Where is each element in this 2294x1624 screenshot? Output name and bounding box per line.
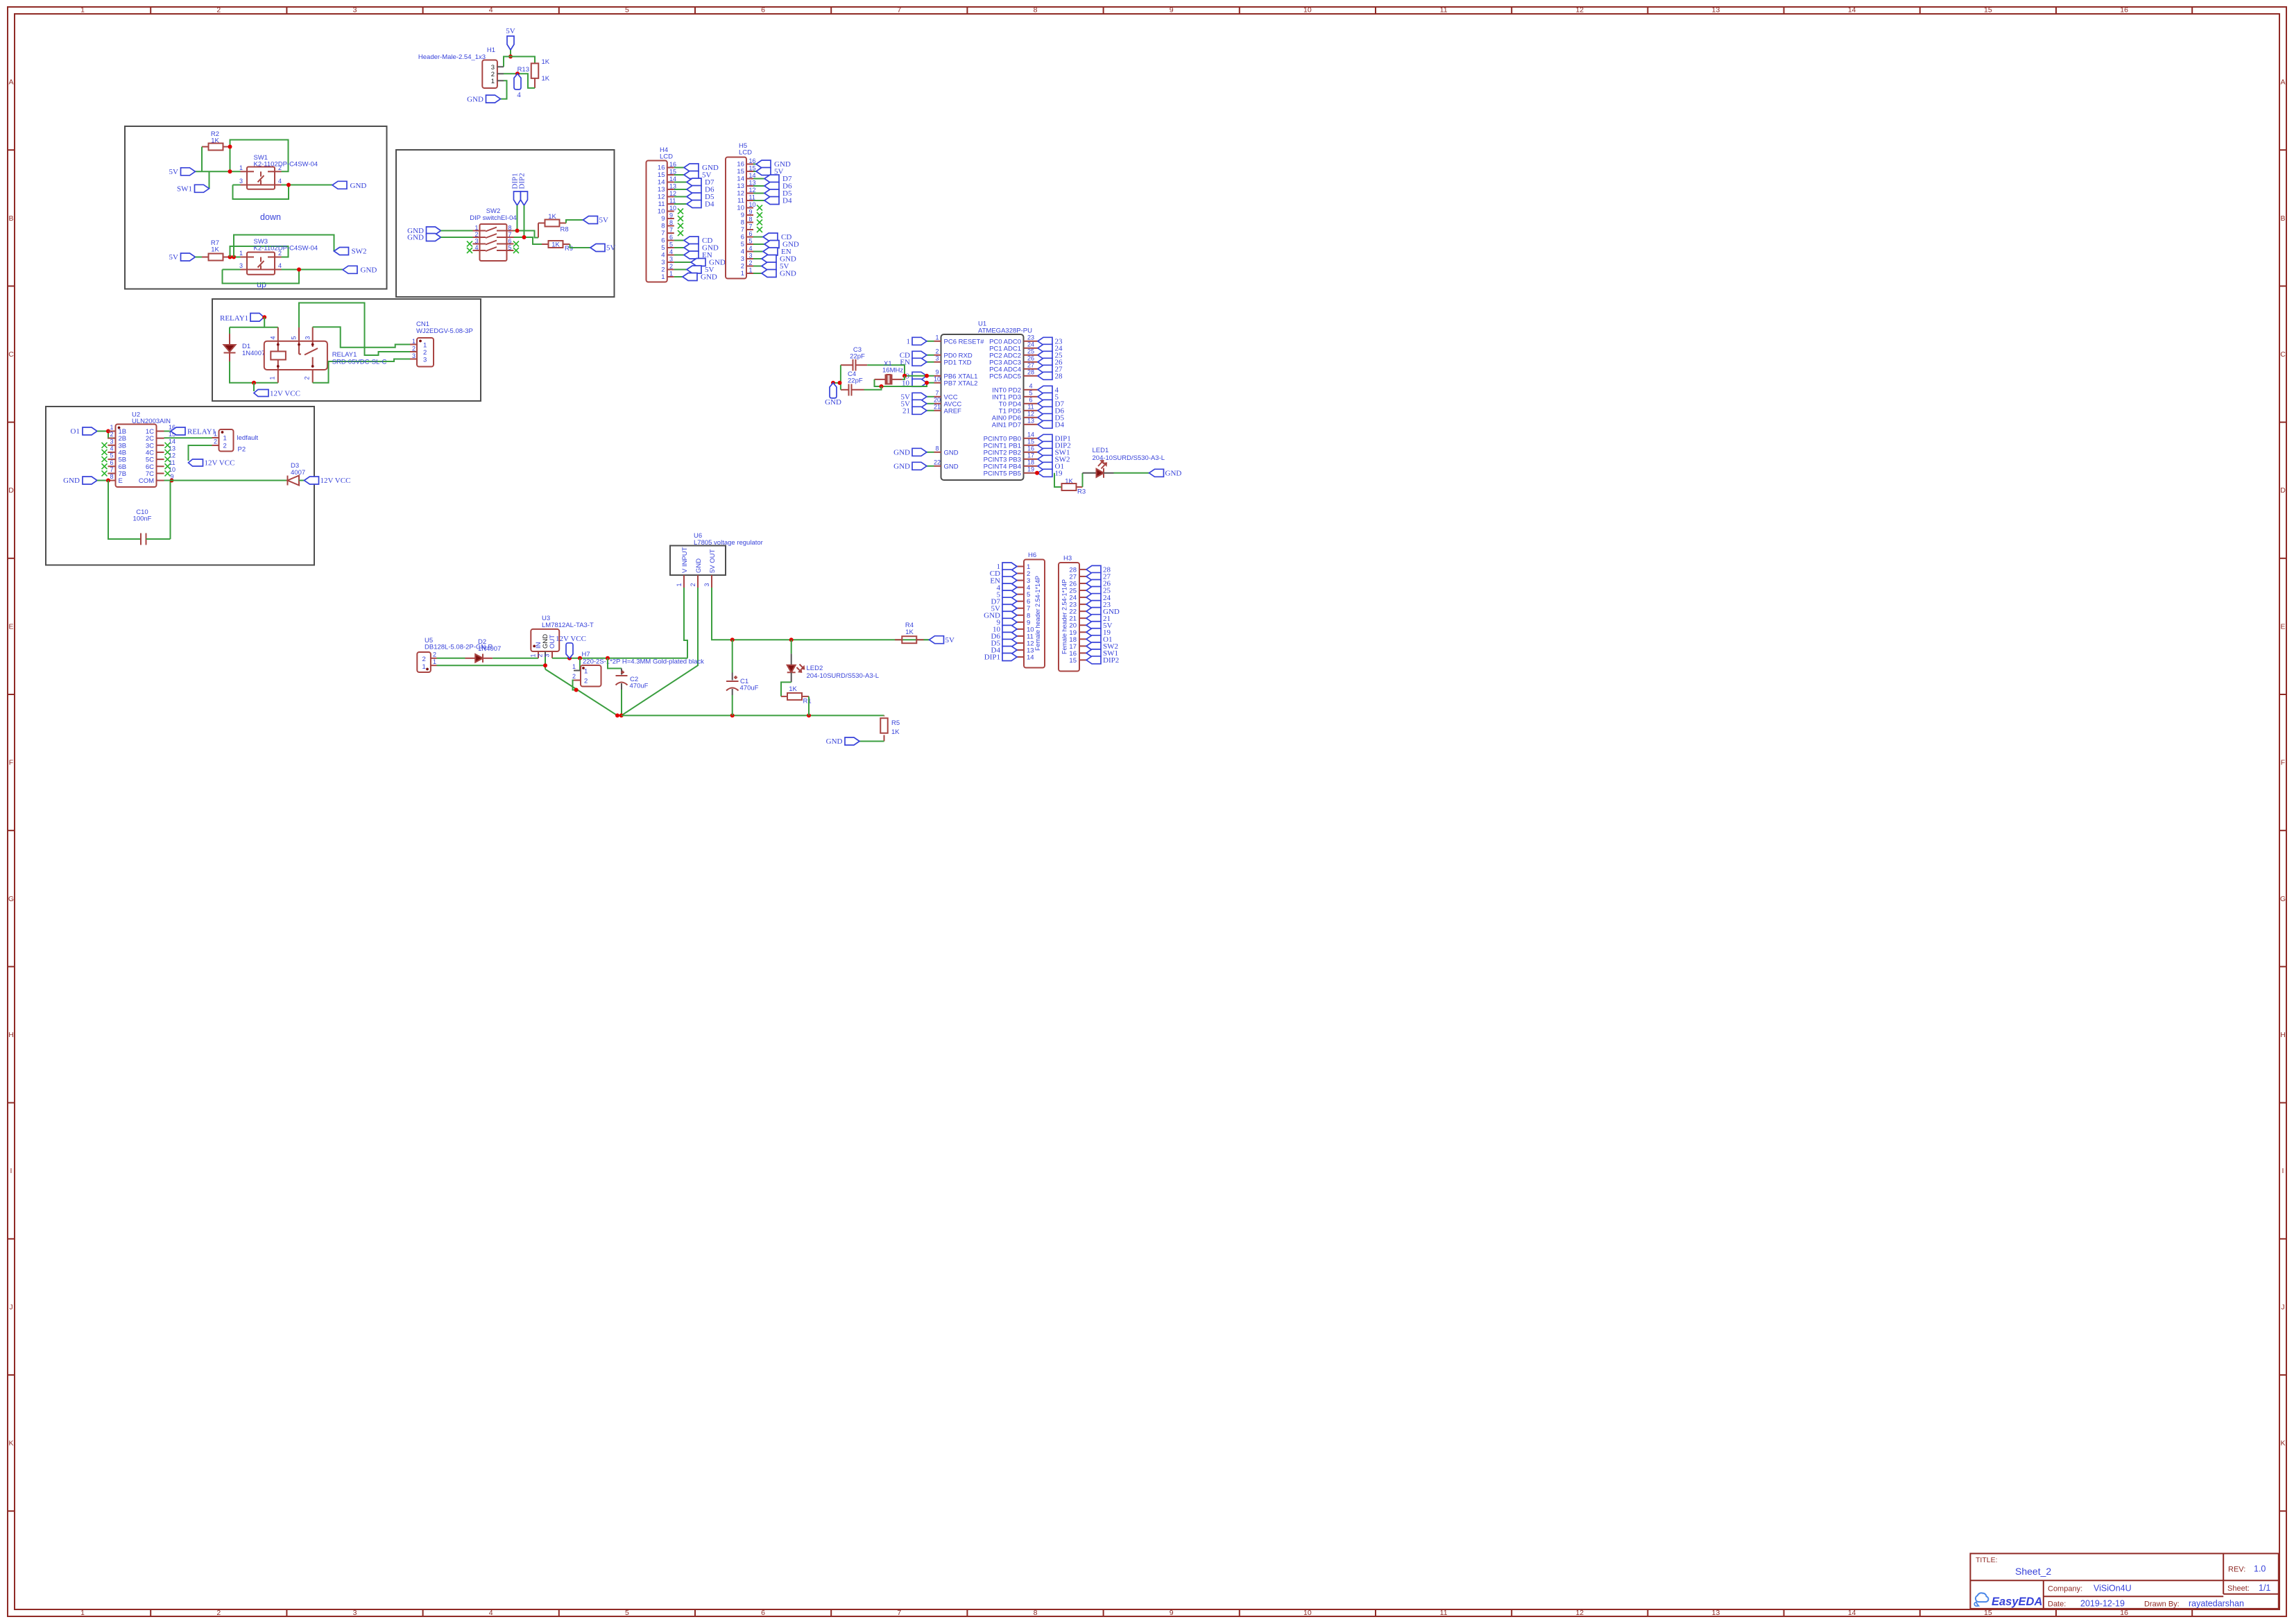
- svg-text:E: E: [119, 477, 123, 485]
- net port DIP2: [518, 173, 528, 205]
- wire R1 to ground rail: [808, 696, 810, 716]
- net port D4 (U1 right): [1031, 420, 1065, 429]
- no-connect x H5 pin 10: [757, 205, 762, 211]
- svg-text:GND: GND: [780, 270, 796, 278]
- net port 23 (U1 right): [1031, 337, 1063, 345]
- junction DIP2/pin7: [522, 235, 527, 239]
- wire inner bypass to SW3 pin2: [230, 246, 289, 257]
- connector CN1 WJ2EDGV-5.08-3P: [410, 320, 473, 367]
- svg-text:4: 4: [110, 445, 113, 452]
- svg-text:2: 2: [584, 678, 588, 685]
- net port DIP1 (U1 right): [1031, 434, 1071, 443]
- power flag 5V (H1): [506, 27, 515, 50]
- junction U3 GND: [543, 663, 547, 667]
- svg-text:1: 1: [214, 431, 217, 438]
- wire U5 pin1 to ground node: [437, 665, 546, 666]
- svg-text:4: 4: [489, 1609, 493, 1617]
- header H7 220-2S jumper: [572, 651, 704, 687]
- svg-text:6: 6: [669, 234, 673, 241]
- no-connect x U2 pin 12: [165, 456, 171, 462]
- junction SW3 pin4: [297, 268, 301, 272]
- wire SW1 bottom loop pin3-pin4: [233, 185, 289, 200]
- wire D2 to U3 IN: [493, 658, 538, 659]
- svg-text:12V VCC: 12V VCC: [205, 459, 235, 468]
- svg-text:4: 4: [1029, 382, 1032, 389]
- svg-text:E: E: [2280, 622, 2285, 631]
- svg-text:100nF: 100nF: [133, 515, 152, 523]
- wire U6 5V OUT to 5V rail: [712, 588, 930, 640]
- wire GND balloon link: [833, 382, 841, 384]
- svg-text:14: 14: [1027, 431, 1034, 438]
- no-connect x SW2 pin4: [467, 248, 472, 253]
- svg-text:15: 15: [737, 168, 744, 176]
- diode D3 4007: [288, 462, 306, 486]
- net port 5V (H5 pin 15): [753, 168, 784, 176]
- svg-text:GND: GND: [350, 182, 367, 190]
- svg-text:12: 12: [1575, 6, 1584, 15]
- svg-text:5V: 5V: [169, 168, 179, 176]
- svg-text:B: B: [8, 214, 13, 223]
- svg-text:1: 1: [935, 334, 939, 341]
- no-connect x H4 pin 9: [678, 216, 683, 221]
- net port 26 (U1 right): [1031, 358, 1063, 366]
- DIP switch SW2 EI-04: [470, 207, 516, 261]
- no-connect x U2 pin 6: [102, 463, 108, 469]
- svg-text:5V: 5V: [599, 216, 609, 225]
- net port 5V (H6 pin 7): [991, 604, 1017, 613]
- net port 10 (H6 pin 10): [993, 625, 1017, 633]
- svg-text:H3: H3: [1063, 555, 1072, 563]
- svg-text:204-10SURD/S530-A3-L: 204-10SURD/S530-A3-L: [807, 672, 880, 680]
- svg-text:2: 2: [278, 250, 282, 257]
- svg-text:11: 11: [658, 200, 665, 208]
- svg-text:2: 2: [741, 263, 744, 271]
- svg-text:8: 8: [669, 219, 673, 226]
- svg-text:5: 5: [291, 336, 298, 339]
- svg-text:Drawn By:: Drawn By:: [2144, 1600, 2180, 1609]
- wire COM to D3: [164, 480, 288, 481]
- svg-text:3: 3: [749, 253, 753, 259]
- svg-text:21: 21: [902, 407, 910, 416]
- no-connect x H5 pin 7: [757, 227, 762, 232]
- svg-text:R1: R1: [803, 698, 812, 706]
- svg-text:2: 2: [278, 164, 282, 171]
- resistor R5 1K: [880, 715, 900, 741]
- svg-text:9: 9: [661, 215, 665, 223]
- net port D5 (H4 pin 12): [674, 193, 714, 201]
- junction XTAL1 flag: [925, 374, 929, 378]
- junction on pin2 wire: [515, 71, 520, 76]
- IC U3 LM7812AL-TA3-T: [530, 615, 594, 665]
- wire 5V to SW1 pin1: [196, 171, 241, 172]
- junction C4/XTAL2: [880, 384, 884, 388]
- svg-text:K: K: [2280, 1439, 2285, 1448]
- svg-text:C: C: [2280, 350, 2286, 359]
- svg-text:H: H: [2280, 1031, 2286, 1039]
- svg-text:1: 1: [80, 1609, 85, 1617]
- svg-text:D: D: [2280, 486, 2286, 495]
- svg-text:2: 2: [474, 231, 478, 238]
- wire R4 to 5V flag: [924, 639, 930, 640]
- wire D1 to 12V rail: [230, 361, 278, 383]
- svg-text:GND: GND: [407, 234, 424, 242]
- svg-text:6: 6: [749, 230, 753, 237]
- svg-text:GND: GND: [944, 463, 959, 470]
- net port GND (LED1): [1149, 469, 1182, 477]
- svg-text:10: 10: [1303, 6, 1312, 15]
- net port GND (H4 pin 1): [674, 273, 717, 282]
- svg-text:2: 2: [423, 349, 427, 357]
- header H5 LCD 16pin: [726, 142, 756, 279]
- wire C4 right to XTAL2 net: [864, 386, 882, 390]
- svg-text:8: 8: [110, 473, 113, 480]
- power flag 5V (SW3): [169, 253, 196, 262]
- net port GND (H5 pin 3): [753, 255, 796, 264]
- net port RELAY1 (input): [220, 314, 264, 323]
- svg-text:D4: D4: [705, 200, 714, 209]
- header H4 LCD 16pin: [647, 146, 677, 282]
- junction U2 pin1: [106, 429, 110, 434]
- svg-text:1: 1: [741, 270, 744, 277]
- svg-text:2: 2: [661, 266, 665, 274]
- net port D4 (H4 pin 11): [674, 200, 714, 209]
- resistor R4 1K: [895, 622, 924, 643]
- svg-text:E: E: [8, 622, 13, 631]
- resistor R7 1K: [202, 239, 230, 261]
- wire LED2 to R1: [781, 682, 791, 696]
- no-connect x U2 pin 4: [102, 450, 108, 455]
- svg-text:GND: GND: [826, 737, 843, 746]
- net port 1 (U1 left): [907, 337, 934, 345]
- svg-text:I: I: [10, 1167, 12, 1175]
- svg-text:7: 7: [897, 1609, 901, 1617]
- svg-text:REV:: REV:: [2228, 1566, 2245, 1574]
- net port 12V VCC (relay): [254, 389, 300, 398]
- wire ground diagonal (U3 side): [545, 669, 617, 716]
- wire H1 pin1 to GND: [501, 80, 507, 99]
- svg-text:PC5 ADC5: PC5 ADC5: [989, 373, 1021, 380]
- svg-text:GND: GND: [63, 477, 80, 485]
- title block: [1970, 1553, 2278, 1609]
- svg-text:1: 1: [412, 338, 416, 345]
- net port D6 (H6 pin 11): [991, 632, 1017, 640]
- wire R8 to 5V: [566, 220, 583, 223]
- svg-text:down: down: [260, 212, 281, 222]
- svg-text:WJ2EDGV-5.08-3P: WJ2EDGV-5.08-3P: [416, 327, 473, 335]
- no-connect x H5 pin 8: [757, 220, 762, 225]
- svg-text:10: 10: [737, 205, 744, 212]
- svg-text:GND: GND: [695, 558, 703, 573]
- svg-text:K2-1102DP-C4SW-04: K2-1102DP-C4SW-04: [254, 245, 318, 253]
- svg-text:AREF: AREF: [944, 407, 962, 415]
- svg-text:11: 11: [169, 459, 175, 466]
- svg-text:2: 2: [223, 443, 227, 450]
- wire D3 to 12V VCC: [299, 480, 305, 481]
- svg-text:11: 11: [1440, 1609, 1448, 1617]
- svg-text:14: 14: [737, 176, 744, 183]
- svg-text:8: 8: [741, 219, 744, 227]
- svg-text:LED1: LED1: [1093, 447, 1109, 454]
- svg-text:1K: 1K: [211, 246, 219, 254]
- svg-text:4: 4: [278, 262, 282, 269]
- svg-text:COM: COM: [139, 477, 154, 485]
- svg-text:1: 1: [433, 658, 436, 665]
- svg-text:12: 12: [1575, 1609, 1584, 1617]
- net port 4 (U1 right): [1031, 386, 1059, 394]
- svg-text:1: 1: [584, 668, 588, 676]
- svg-text:2: 2: [412, 345, 416, 352]
- svg-text:R8: R8: [560, 226, 569, 234]
- svg-text:5: 5: [741, 241, 744, 248]
- svg-text:2019-12-19: 2019-12-19: [2080, 1599, 2125, 1609]
- svg-text:3: 3: [353, 6, 357, 15]
- net port CD (H4 pin 6): [674, 237, 713, 245]
- svg-text:SW2: SW2: [352, 248, 367, 256]
- net port GND (SW2 pin2): [407, 234, 440, 242]
- svg-text:1: 1: [239, 164, 243, 171]
- wire R2 left to 5V rail: [201, 147, 203, 172]
- svg-text:1N4007: 1N4007: [478, 645, 501, 653]
- svg-text:RELAY1: RELAY1: [220, 314, 248, 323]
- svg-text:2: 2: [537, 653, 544, 657]
- svg-text:P2: P2: [238, 446, 246, 454]
- net port D4 (H5 pin 11): [753, 197, 792, 205]
- wire U3 GND down: [545, 657, 546, 669]
- svg-text:GND: GND: [825, 398, 841, 407]
- svg-text:13: 13: [1712, 6, 1720, 15]
- svg-text:1: 1: [530, 653, 537, 657]
- svg-text:12V VCC: 12V VCC: [270, 389, 300, 398]
- power flag 12V VCC (rail): [556, 635, 586, 658]
- resistor R9 1K: [542, 241, 573, 253]
- net port 26 (H3 pin 26): [1086, 579, 1111, 588]
- junction XTAL2 flag: [925, 381, 929, 385]
- svg-text:Company:: Company:: [2048, 1585, 2082, 1593]
- no-connect x U2 pin 14: [165, 443, 171, 448]
- svg-text:470uF: 470uF: [740, 685, 759, 692]
- net port 4 (H6 pin 4): [997, 583, 1018, 592]
- net port D5 (H6 pin 12): [991, 639, 1017, 647]
- svg-text:D4: D4: [1055, 421, 1065, 429]
- net port 5V (U1 left): [901, 400, 934, 408]
- resistor R2 1K: [202, 130, 230, 151]
- no-connect x U2 pin 10: [165, 470, 171, 476]
- connector P2 ledfault: [212, 429, 259, 454]
- net port D7 (U1 right): [1031, 400, 1065, 408]
- svg-text:2: 2: [935, 348, 939, 354]
- svg-text:4: 4: [489, 6, 493, 15]
- wire R9 to 5V: [570, 244, 591, 248]
- junction H7 ground: [574, 688, 579, 692]
- svg-text:15: 15: [658, 171, 665, 179]
- group box (relay driver): [212, 299, 481, 401]
- svg-text:4: 4: [474, 244, 478, 251]
- svg-text:3: 3: [110, 438, 113, 445]
- net port SW2: [334, 248, 367, 256]
- net port GND (SW1): [332, 181, 366, 190]
- net port D7 (H5 pin 14): [753, 175, 792, 183]
- wire 5V rail to LED2: [791, 640, 792, 653]
- no-connect x H4 pin 10: [678, 209, 683, 214]
- net port DIP1: [511, 173, 521, 205]
- svg-text:8: 8: [661, 223, 665, 230]
- no-connect x U2 pin 5: [102, 456, 108, 462]
- wire R7 to SW3 pin1: [230, 257, 241, 258]
- wire relay pin2 to CN1 pin3: [313, 359, 410, 383]
- svg-text:220-2S-1*2P H=4.3MM Gold-plate: 220-2S-1*2P H=4.3MM Gold-plated black: [583, 658, 704, 666]
- svg-text:R3: R3: [1077, 488, 1086, 496]
- wire U5 pin2 to D2: [437, 658, 465, 659]
- net port GND (H5 pin 1): [753, 270, 796, 278]
- no-connect x H5 pin 9: [757, 212, 762, 218]
- wire pin8 net: [514, 231, 539, 238]
- svg-text:SW1: SW1: [177, 185, 192, 194]
- svg-text:3: 3: [239, 262, 243, 269]
- svg-text:1: 1: [110, 424, 113, 431]
- svg-text:Female header 2.54-1*14P: Female header 2.54-1*14P: [1034, 576, 1041, 651]
- net port GND (H1): [467, 95, 500, 103]
- svg-text:H: H: [8, 1031, 14, 1039]
- net port 25 (U1 right): [1031, 351, 1063, 359]
- net port GND (U1 left): [893, 462, 934, 470]
- wire X1 right to XTAL1 node: [902, 376, 905, 379]
- power flag 5V (R8): [583, 216, 609, 225]
- svg-text:GND: GND: [701, 273, 717, 282]
- svg-text:1K: 1K: [542, 58, 550, 66]
- svg-text:22pF: 22pF: [850, 353, 865, 361]
- svg-text:16: 16: [2120, 1609, 2128, 1617]
- svg-text:Female header 2.54-1*14P: Female header 2.54-1*14P: [1061, 579, 1068, 654]
- svg-text:1K: 1K: [542, 75, 550, 83]
- net port 9 (U1 XTAL1): [906, 372, 927, 380]
- junction R7 inner: [228, 255, 232, 259]
- svg-text:5: 5: [508, 244, 512, 251]
- net port 25 (H3 pin 25): [1086, 587, 1111, 595]
- wire E to C10: [108, 481, 141, 540]
- net port GND (SW2 pin1): [407, 227, 440, 235]
- power flag GND (XTAL): [825, 383, 841, 407]
- svg-text:1: 1: [80, 6, 85, 15]
- net port GND (SW3): [343, 266, 377, 274]
- svg-text:7: 7: [110, 466, 113, 473]
- svg-text:1: 1: [474, 225, 478, 232]
- svg-text:8: 8: [508, 225, 512, 232]
- svg-text:RELAY1: RELAY1: [187, 428, 216, 436]
- svg-text:16: 16: [658, 164, 665, 172]
- svg-text:DIP2: DIP2: [1103, 656, 1119, 665]
- junction U2 E: [106, 479, 110, 483]
- svg-text:H1: H1: [487, 46, 495, 54]
- wire 12V rail to H7 pin1: [579, 658, 581, 671]
- svg-text:10: 10: [934, 375, 941, 382]
- svg-text:PCINT5 PB5: PCINT5 PB5: [984, 470, 1021, 477]
- svg-text:7: 7: [897, 6, 901, 15]
- junction SW1 pin4: [286, 183, 291, 187]
- svg-text:1.0: 1.0: [2254, 1564, 2266, 1574]
- net port D6 (H4 pin 13): [674, 186, 714, 194]
- wire 5V to node: [510, 50, 511, 57]
- net port GND (H5 pin 5): [753, 241, 799, 249]
- net port 28 (U1 right): [1031, 372, 1063, 380]
- svg-text:5V: 5V: [506, 27, 515, 35]
- svg-text:DIP switchEI-04: DIP switchEI-04: [470, 214, 516, 222]
- svg-text:13: 13: [658, 186, 665, 194]
- header H1 Header-Male-2.54_1x3: [418, 46, 504, 88]
- net port GND (R5): [826, 737, 859, 746]
- wire GND to pin2: [441, 237, 473, 238]
- svg-text:LCD: LCD: [739, 149, 752, 157]
- svg-text:3: 3: [661, 259, 665, 266]
- svg-text:GND: GND: [944, 449, 959, 456]
- svg-text:13: 13: [1712, 1609, 1720, 1617]
- svg-text:10: 10: [1303, 1609, 1312, 1617]
- svg-text:470uF: 470uF: [630, 683, 649, 690]
- svg-text:H7: H7: [582, 651, 590, 658]
- net port 4: [514, 74, 521, 99]
- net port O1 (U2 input): [71, 427, 97, 436]
- wire DIP1 to pin8: [517, 205, 518, 231]
- svg-text:3: 3: [423, 357, 427, 364]
- svg-text:GND: GND: [893, 449, 910, 457]
- svg-text:B: B: [2280, 214, 2285, 223]
- net port DIP2 (H3 pin 15): [1086, 656, 1119, 665]
- svg-text:5: 5: [749, 238, 753, 245]
- svg-text:2: 2: [690, 583, 696, 586]
- svg-text:8: 8: [1034, 1609, 1038, 1617]
- svg-text:I: I: [2282, 1167, 2284, 1175]
- svg-text:10: 10: [749, 201, 756, 208]
- svg-text:5V OUT: 5V OUT: [709, 549, 717, 573]
- node junction (5V/H1.3/R13): [508, 55, 513, 59]
- svg-text:3: 3: [544, 653, 551, 657]
- junction R2/bypass: [228, 145, 232, 149]
- svg-text:1: 1: [572, 663, 576, 670]
- svg-text:10: 10: [658, 208, 665, 216]
- svg-text:13: 13: [737, 182, 744, 190]
- svg-text:DIP1: DIP1: [984, 653, 1000, 662]
- svg-text:1: 1: [661, 273, 665, 281]
- svg-text:10: 10: [669, 205, 676, 212]
- capacitor C2 470uF: [616, 669, 649, 690]
- net port 5V (H3 pin 20): [1086, 622, 1113, 630]
- net port 19 (U1 right): [1031, 469, 1063, 477]
- wire SW1 flag to pin1 wire: [209, 171, 210, 188]
- svg-text:9: 9: [1170, 6, 1174, 15]
- svg-text:D4: D4: [782, 197, 792, 205]
- header H6 Female header 2.54 1x14P: [1017, 552, 1045, 668]
- svg-text:3: 3: [239, 178, 243, 185]
- svg-text:GND: GND: [893, 463, 910, 471]
- svg-text:5: 5: [625, 1609, 629, 1617]
- svg-text:5V: 5V: [606, 244, 616, 253]
- net port D5 (U1 right): [1031, 413, 1065, 422]
- svg-text:3: 3: [353, 1609, 357, 1617]
- svg-text:6: 6: [661, 237, 665, 245]
- svg-text:O1: O1: [71, 427, 80, 436]
- svg-text:LED2: LED2: [807, 665, 823, 672]
- svg-text:14: 14: [1848, 1609, 1856, 1617]
- svg-text:7: 7: [749, 223, 753, 230]
- junction C1 ground: [730, 713, 735, 717]
- svg-text:3: 3: [703, 583, 710, 586]
- junction R1 ground: [807, 713, 811, 717]
- power flag 5V (SW1): [169, 168, 196, 176]
- svg-text:4: 4: [278, 178, 282, 185]
- net port 10 (U1 XTAL2): [902, 379, 927, 387]
- svg-text:19: 19: [1055, 470, 1063, 478]
- net port 24 (H3 pin 24): [1086, 594, 1111, 602]
- svg-text:15: 15: [1984, 6, 1992, 15]
